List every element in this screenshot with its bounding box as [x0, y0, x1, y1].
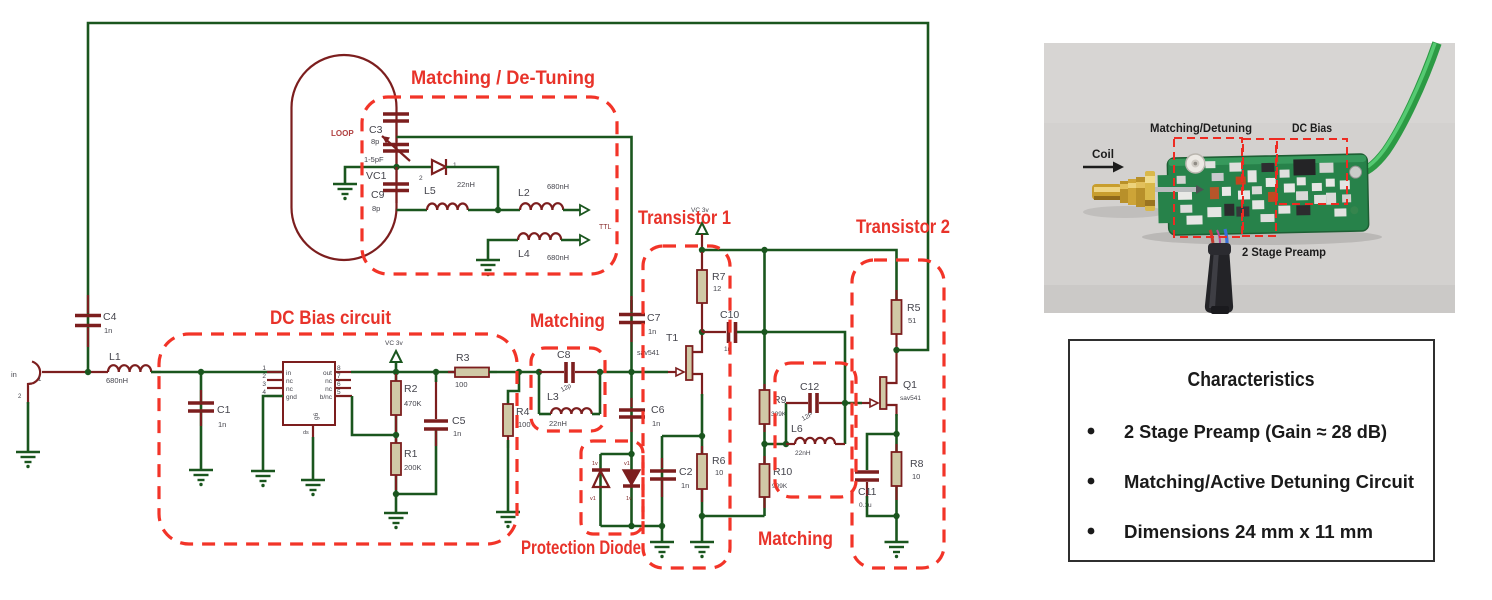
svg-text:DC Bias circuit: DC Bias circuit: [270, 308, 392, 329]
node R2/R1: [393, 432, 399, 438]
wire IC pin4 to ground: [263, 396, 283, 471]
power VC 3v (T1): [691, 207, 709, 250]
node T1 source/C2: [699, 433, 705, 439]
resistor R9: [760, 384, 787, 432]
capacitor C3: [369, 114, 409, 146]
wire R9 R10 column: [763, 250, 766, 516]
svg-text:L3: L3: [547, 391, 559, 403]
resistor R10: [760, 456, 793, 508]
node C5/main: [433, 369, 439, 375]
ground C1: [189, 470, 213, 486]
ground R8: [885, 542, 909, 558]
svg-text:C4: C4: [103, 311, 117, 323]
svg-text:10: 10: [912, 472, 920, 481]
node G10/R9: [761, 329, 767, 335]
wire C5 top: [435, 372, 438, 382]
pin TTL out 1: [580, 205, 589, 215]
svg-text:TTL: TTL: [599, 224, 612, 231]
ground IC pin4: [251, 471, 275, 487]
inductor L6: [786, 423, 845, 457]
svg-text:680nH: 680nH: [547, 182, 569, 191]
op-amp U1 bias IC: [262, 362, 352, 437]
svg-text:L4: L4: [518, 248, 530, 260]
svg-text:8p: 8p: [372, 204, 380, 213]
resistor R1: [391, 443, 422, 490]
svg-text:Coil: Coil: [1092, 147, 1114, 161]
node diode rail bottom: [628, 523, 634, 529]
svg-text:2: 2: [419, 175, 423, 182]
svg-text:L2: L2: [518, 187, 530, 199]
wire G10 to C12 node: [765, 332, 846, 444]
cable wires red blue: [1210, 230, 1213, 243]
svg-text:22nH: 22nH: [457, 180, 475, 189]
wire tap to C12 left: [765, 403, 787, 444]
svg-text:1n: 1n: [218, 420, 226, 429]
node R9/L6 tap: [761, 441, 767, 447]
ground input: [16, 452, 40, 468]
inductor L4: [518, 233, 569, 262]
svg-text:10: 10: [715, 468, 723, 477]
svg-text:2 Stage Preamp (Gain ≈ 28 dB): 2 Stage Preamp (Gain ≈ 28 dB): [1124, 421, 1387, 442]
inductor L3: [539, 391, 600, 428]
svg-text:C3: C3: [369, 124, 383, 136]
inductor L5: [424, 185, 468, 210]
svg-text:100: 100: [518, 420, 531, 429]
capacitor C7: [619, 296, 661, 342]
svg-text:22nH: 22nH: [549, 419, 567, 428]
node diode rail top: [628, 451, 634, 457]
svg-text:2 Stage Preamp: 2 Stage Preamp: [1242, 245, 1326, 259]
svg-text:R5: R5: [907, 302, 921, 314]
ground R4: [496, 512, 520, 528]
diode D1 detuning: [419, 159, 475, 189]
wire Q1 source column: [895, 414, 898, 542]
wire R3 to matching: [489, 371, 539, 374]
wire IC out to R3: [351, 371, 455, 374]
wire R2 R1 column: [395, 372, 398, 513]
svg-text:nc: nc: [286, 386, 294, 393]
svg-text:L6: L6: [791, 423, 803, 435]
capacitor C9: [371, 167, 409, 213]
svg-text:1n: 1n: [453, 429, 461, 438]
SMA connector: [1092, 171, 1204, 211]
wire C2 top rail: [662, 435, 702, 438]
svg-text:Matching: Matching: [530, 311, 605, 332]
svg-text:7: 7: [337, 373, 341, 380]
wire C2 column: [661, 436, 664, 542]
svg-text:v1: v1: [590, 496, 596, 502]
wire L4 out: [561, 239, 580, 242]
capacitor C11: [855, 472, 879, 509]
resistor R7: [697, 252, 726, 332]
wire IC ds pin down: [312, 437, 315, 480]
svg-text:R7: R7: [712, 271, 726, 283]
svg-text:309K: 309K: [771, 411, 787, 418]
wire VC1 to diode: [397, 166, 433, 169]
svg-text:in: in: [286, 370, 291, 377]
svg-text:12: 12: [713, 284, 721, 293]
svg-text:3: 3: [262, 381, 266, 388]
ground R1: [384, 513, 408, 529]
svg-text:R3: R3: [456, 352, 470, 364]
power VC 3v (bias): [385, 340, 403, 372]
capacitor C4: [75, 295, 117, 347]
svg-text:v1: v1: [624, 461, 630, 467]
wire R6 to R10 rail: [702, 515, 765, 518]
svg-text:5: 5: [337, 389, 341, 396]
wire diode left column: [599, 454, 602, 526]
svg-text:out: out: [323, 370, 332, 377]
svg-text:Transistor 1: Transistor 1: [638, 208, 731, 229]
ground L4: [476, 260, 500, 276]
svg-text:1v: 1v: [626, 496, 632, 502]
node R4 tap: [516, 369, 522, 375]
capacitor C8: [539, 349, 600, 394]
box DC Bias circuit: [159, 334, 517, 544]
svg-text:680nH: 680nH: [106, 376, 128, 385]
transistor Q1: [862, 352, 921, 416]
wire main to T1 gate: [600, 371, 668, 374]
svg-text:ds: ds: [303, 430, 309, 436]
ground C2: [650, 542, 674, 558]
svg-text:Matching: Matching: [758, 529, 833, 550]
svg-text:1n: 1n: [104, 326, 112, 335]
wire C11 top rail: [867, 434, 897, 470]
wire VC rail to R5: [702, 250, 897, 300]
svg-text:nc: nc: [286, 378, 294, 385]
svg-text:Dimensions 24 mm x 11 mm: Dimensions 24 mm x 11 mm: [1124, 521, 1373, 542]
diode DP1 protection: [590, 461, 610, 502]
node VC1: [393, 164, 399, 170]
resistor R4: [503, 404, 531, 448]
node L5/L2: [495, 207, 501, 213]
node C12 left: [783, 441, 789, 447]
capacitor C12: [786, 381, 845, 423]
svg-text:200K: 200K: [404, 463, 422, 472]
box Matching/De-Tuning: [362, 97, 617, 274]
svg-text:C10: C10: [720, 309, 739, 321]
svg-text:DC Bias: DC Bias: [1292, 121, 1332, 135]
node C8 left: [536, 369, 542, 375]
wire input down: [27, 402, 30, 452]
svg-text:C8: C8: [557, 349, 571, 361]
PCB board: [1157, 150, 1369, 235]
node T1 drain: [699, 329, 705, 335]
box Matching 1: [531, 348, 605, 431]
svg-text:Matching/Active Detuning Circu: Matching/Active Detuning Circuit: [1124, 471, 1414, 492]
coil arrow: [1083, 162, 1124, 173]
characteristics box: [1069, 340, 1434, 561]
node VC/R7: [699, 247, 705, 253]
svg-text:in: in: [11, 370, 17, 379]
wire C12 to Q1 gate: [845, 402, 862, 405]
box Transistor 1: [643, 246, 730, 568]
node C12 right: [842, 400, 848, 406]
resistor R5: [892, 290, 921, 352]
board shadow: [1142, 229, 1382, 245]
node Q1 source/C11: [893, 431, 899, 437]
svg-text:R6: R6: [712, 455, 726, 467]
svg-text:g6: g6: [313, 412, 320, 420]
ground VC1: [333, 184, 357, 200]
svg-text:Matching/Detuning: Matching/Detuning: [1150, 121, 1252, 135]
svg-text:Q1: Q1: [903, 379, 917, 391]
svg-text:470K: 470K: [404, 399, 422, 408]
node C8 right: [597, 369, 603, 375]
wire diode rail top: [601, 453, 632, 456]
wire L2 out: [563, 209, 580, 212]
svg-text:C2: C2: [679, 466, 693, 478]
svg-text:VC1: VC1: [366, 170, 387, 182]
svg-text:6: 6: [337, 381, 341, 388]
wire main to IC: [151, 371, 283, 374]
wire diode rail bottom: [601, 525, 663, 528]
svg-text:1-5pF: 1-5pF: [364, 155, 384, 164]
node main/C4: [85, 369, 91, 375]
inductor L2: [518, 182, 569, 210]
box Matching 2: [775, 363, 856, 497]
resistor R2: [391, 374, 422, 443]
svg-text:C7: C7: [647, 312, 661, 324]
svg-text:gnd: gnd: [286, 394, 297, 401]
resistor R8: [892, 444, 924, 500]
svg-text:C5: C5: [452, 415, 466, 427]
wire R1 bottom to C5: [396, 430, 436, 494]
box Transistor 2: [852, 260, 944, 568]
svg-text:Protection Diode: Protection Diode: [521, 538, 641, 559]
box Protection Diode: [581, 441, 643, 534]
svg-text:22nH: 22nH: [795, 450, 811, 457]
node R8 bottom: [893, 513, 899, 519]
pin TTL out 2: [580, 235, 589, 245]
green hookup wire: [1356, 43, 1437, 174]
svg-text:L5: L5: [424, 185, 436, 197]
wire C9 to L5: [397, 209, 428, 212]
svg-text:LOOP: LOOP: [331, 129, 354, 138]
capacitor C5: [424, 380, 466, 446]
svg-text:8: 8: [337, 365, 341, 372]
ground IC ds: [301, 480, 325, 496]
svg-text:nc: nc: [325, 378, 333, 385]
resistor R3: [448, 352, 497, 389]
svg-text:L1: L1: [109, 351, 121, 363]
photo box Matching/Detuning: [1174, 138, 1242, 237]
wire C8/L3 left leg: [538, 372, 541, 414]
wire diode to L2 node: [446, 167, 498, 210]
svg-text:1n: 1n: [648, 327, 656, 336]
svg-text:nc: nc: [325, 386, 333, 393]
svg-text:C9: C9: [371, 189, 385, 201]
svg-text:1n: 1n: [681, 481, 689, 490]
wire VC1 to ground: [345, 167, 397, 184]
node R1 bottom: [393, 491, 399, 497]
inductor L1: [90, 351, 161, 385]
wire L4 left to ground: [488, 240, 518, 260]
wire C7 C6 column: [630, 300, 633, 526]
svg-text:C12: C12: [800, 381, 819, 393]
node main/C7 column: [628, 369, 634, 375]
wire T1 source column: [701, 394, 704, 542]
svg-text:680nH: 680nH: [547, 253, 569, 262]
svg-text:2: 2: [262, 373, 266, 380]
svg-text:R1: R1: [404, 448, 418, 460]
svg-text:R2: R2: [404, 383, 418, 395]
photo box middle: [1243, 139, 1276, 236]
svg-text:sav541: sav541: [900, 395, 921, 402]
svg-text:1: 1: [262, 365, 266, 372]
svg-text:VC 3v: VC 3v: [385, 340, 403, 347]
svg-text:sav541: sav541: [637, 350, 660, 357]
wire R4 to ground: [507, 440, 510, 512]
node out/VC: [393, 369, 399, 375]
svg-text:51: 51: [908, 316, 916, 325]
capacitor C10: [702, 309, 765, 353]
photo background: [1044, 43, 1455, 313]
svg-text:C1: C1: [217, 404, 231, 416]
wire top frame: [88, 23, 928, 372]
node R6 bottom: [699, 513, 705, 519]
svg-text:Matching / De-Tuning: Matching / De-Tuning: [411, 68, 595, 89]
photo PCB preamp: [1044, 43, 1455, 314]
node C2 bottom rail: [659, 523, 665, 529]
node main/C1: [198, 369, 204, 375]
LOOP coil: [292, 55, 397, 260]
ground R6: [690, 542, 714, 558]
capacitor C6: [619, 398, 665, 432]
wire C8/L3 right leg: [599, 372, 602, 414]
capacitor VC1 variable: [364, 136, 410, 182]
transistor T1: [666, 332, 702, 396]
photo box DC Bias: [1277, 139, 1347, 204]
wire R4 jog: [508, 372, 519, 404]
svg-text:Characteristics: Characteristics: [1188, 369, 1315, 391]
capacitor C1: [188, 390, 231, 429]
svg-text:100: 100: [455, 380, 468, 389]
svg-text:1v: 1v: [592, 461, 598, 467]
node VC rail/R9: [761, 247, 767, 253]
wire C11 bottom rail: [867, 496, 897, 516]
svg-text:R8: R8: [910, 458, 924, 470]
capacitor C2: [650, 458, 693, 497]
connector input "in": [11, 362, 90, 405]
resistor R6: [697, 446, 726, 502]
wire detuning top: [397, 137, 632, 310]
svg-text:Transistor 2: Transistor 2: [856, 217, 950, 238]
svg-text:8p: 8p: [371, 137, 379, 146]
wire L5 to node: [468, 209, 520, 212]
diode DP2 protection: [623, 461, 640, 502]
wire IC pin5 to divider: [352, 396, 396, 435]
wire C1 column: [200, 372, 203, 470]
svg-text:b/nc: b/nc: [320, 394, 333, 401]
svg-text:1n: 1n: [652, 419, 660, 428]
black coax cable: [1205, 247, 1233, 313]
node R5/Q1 drain: [893, 347, 899, 353]
svg-text:0.1u: 0.1u: [859, 502, 872, 509]
svg-text:C6: C6: [651, 404, 665, 416]
svg-text:T1: T1: [666, 332, 678, 344]
SMD components: [1178, 190, 1192, 200]
